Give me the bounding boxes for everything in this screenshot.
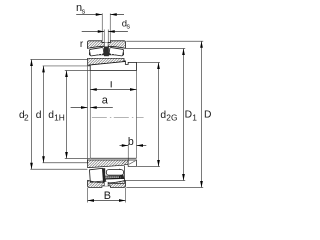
svg-text:2: 2 [24,112,29,122]
cage bar with rivets lower [104,176,120,179]
lube hole lower [104,182,107,186]
dimension a [71,106,113,109]
ext line bearing right face vertical [125,188,127,203]
ext line d2G upper [137,62,160,64]
arrow d1H down [65,152,68,159]
svg-text:D: D [204,110,211,121]
dim line d1H [66,71,68,159]
right roller lower (outside view) [106,170,123,176]
arrow D down [200,181,203,188]
ext line d2 upper [30,59,87,61]
ext line d1H upper [65,70,90,72]
svg-text:b: b [128,136,134,148]
svg-text:1H: 1H [54,112,65,122]
dim line D [201,41,203,187]
arrow D1 down [182,174,185,181]
svg-text:B: B [104,190,111,202]
arrow d down [42,156,45,163]
dimension ns [76,13,124,16]
dim line d2 [31,60,33,170]
ext line d1H lower [65,158,90,160]
arrow d2 up [30,60,33,67]
dimension B [88,199,126,202]
ext line thread start vertical [127,144,129,164]
left roller lower (section) [90,168,104,182]
upper bearing half [88,41,137,71]
svg-text:D: D [185,110,192,121]
ext line sleeve left end vertical [89,71,91,159]
svg-text:2G: 2G [166,112,177,122]
dim line d2G [158,63,160,167]
lube hole upper [104,42,107,46]
svg-text:s: s [127,24,131,31]
svg-text:1: 1 [192,112,197,122]
arrow d2G down [157,160,160,167]
sleeve bore line lower [90,157,136,159]
outer ring upper [88,41,126,49]
right roller upper [109,47,124,56]
sleeve thread land lower [128,160,136,166]
arrowheads vertical dims [30,41,203,187]
ext line bearing left face vertical [87,66,89,203]
ext line d2G lower [137,166,160,168]
arrow d1H up [65,71,68,78]
arrow d2G up [157,63,160,70]
ext line d lower [43,162,88,164]
dim line D1 [183,49,185,181]
svg-text:s: s [82,6,86,15]
cage upper [89,52,124,55]
ext line sleeve right face vertical [136,71,138,159]
hatch marks lower thread land [122,161,135,165]
ext lines ns groove [102,13,110,41]
inner ring upper [88,58,126,65]
extension lines [30,13,203,202]
centerline (bearing axis) [92,116,144,118]
svg-text:d: d [36,110,42,121]
ext line D upper [126,40,203,42]
sleeve and inner ring lower (hatched band) [88,160,129,168]
adapter sleeve upper [90,62,136,71]
ext line d2 lower [30,168,87,170]
dimension ds [82,30,128,33]
outer ring lower [88,180,126,187]
arrow d2 down [30,163,33,170]
dim line d [43,66,45,163]
inner ring face line lower right [124,166,126,179]
lower bearing half [88,158,137,187]
svg-text:a: a [102,94,109,106]
label l [110,81,112,87]
arrow d up [42,66,45,73]
arrow D up [200,41,203,48]
dimension lines vertical [32,41,202,187]
dimension b [120,144,147,147]
ext line D1 lower [126,180,185,182]
ext line d upper [43,65,119,67]
cage rivets upper [92,53,122,54]
ext lines ds hole [104,30,108,43]
cage lower slab [105,179,125,184]
dimension l [90,88,136,91]
ext line D1 upper [126,48,185,50]
arrow D1 up [182,49,185,56]
ext line D lower [126,187,203,189]
left roller upper [89,47,104,56]
cage dark backing lower [103,168,106,182]
